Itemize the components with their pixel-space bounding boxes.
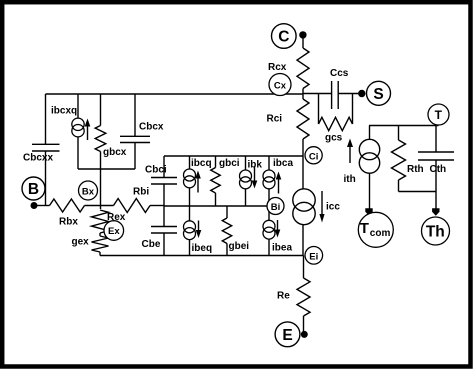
junction dot at Tcom: [365, 208, 372, 216]
wire ibca branch: [268, 156, 270, 206]
resistor Rci: [297, 99, 309, 139]
resistor Rbx: [50, 199, 85, 212]
wire thermal top rail: [369, 125, 439, 127]
svg-text:Rth: Rth: [407, 164, 424, 175]
terminal E: [275, 322, 300, 347]
svg-text:B: B: [28, 181, 39, 198]
current source ith: [347, 139, 380, 174]
wire left drop x=45.5 upper: [45, 94, 47, 144]
current source icc: [293, 189, 325, 225]
svg-text:gcs: gcs: [325, 133, 343, 144]
wire top rail to Ccs: [303, 93, 332, 95]
svg-text:C: C: [278, 29, 289, 46]
terminal C: [272, 24, 297, 49]
current source ibcq: [184, 169, 201, 193]
svg-text:E: E: [282, 327, 292, 344]
svg-text:Re: Re: [277, 291, 290, 302]
terminal B: [22, 177, 45, 200]
resistor Rth: [392, 140, 406, 180]
svg-text:gbei: gbei: [229, 241, 250, 252]
terminal T: [428, 104, 449, 125]
wire gbei lower: [226, 244, 228, 256]
wire left drop x=45.5 lower: [45, 151, 47, 206]
node Ex: [104, 221, 124, 241]
svg-text:T: T: [435, 108, 443, 122]
svg-text:icc: icc: [326, 202, 340, 213]
svg-text:ibk: ibk: [248, 160, 263, 171]
svg-text:gbcx: gbcx: [103, 147, 127, 158]
svg-text:ith: ith: [344, 174, 356, 185]
wire Ei to Re: [303, 256, 305, 279]
svg-text:com: com: [370, 228, 391, 239]
resistor gcs: [319, 117, 353, 130]
wire inner mid rail y=206: [164, 205, 267, 207]
svg-text:gex: gex: [72, 237, 90, 248]
svg-text:Ei: Ei: [309, 251, 318, 262]
capacitor Cth: [418, 152, 454, 160]
svg-text:Rbx: Rbx: [59, 217, 78, 228]
resistor Re: [297, 278, 310, 316]
wire x=100.5 down to B row: [100, 169, 102, 209]
node Th: [422, 217, 450, 245]
wire Rth upper: [398, 126, 400, 141]
resistor Rbi: [114, 199, 151, 213]
junction dot at C: [299, 31, 306, 38]
svg-text:ibcq: ibcq: [191, 158, 212, 169]
wire Rbi to inner box: [150, 205, 164, 207]
svg-text:gbci: gbci: [219, 158, 240, 169]
resistor gbci: [211, 168, 220, 194]
wire block bottom rail y=169: [78, 168, 135, 170]
svg-text:ibcxq: ibcxq: [51, 106, 77, 117]
wire inner left column middle: [163, 184, 165, 227]
svg-text:Cbe: Cbe: [142, 239, 161, 250]
current source ibeq: [184, 221, 202, 240]
wire Rth lower: [398, 180, 400, 192]
wire gbei upper: [226, 206, 228, 218]
wire Cbcx lower: [134, 143, 136, 170]
resistor Rex: [92, 210, 109, 233]
wire Cbcx upper: [134, 94, 136, 136]
wire Cth upper: [435, 126, 437, 153]
wire Rci to Ci rail: [302, 139, 304, 156]
svg-text:Th: Th: [426, 224, 445, 241]
current source ibk: [240, 166, 258, 189]
junction dot at Th: [432, 208, 439, 216]
wire ibeq branch: [189, 206, 191, 256]
svg-text:Cx: Cx: [274, 81, 287, 92]
capacitor Cbcxx: [32, 144, 60, 151]
wire gbci lower: [215, 193, 217, 206]
junction dot at B: [31, 202, 38, 209]
wire collector drop C to Rcx: [302, 36, 304, 49]
wire collector vertical through icc: [302, 156, 304, 256]
svg-text:Bx: Bx: [82, 187, 95, 198]
svg-text:ibca: ibca: [273, 158, 293, 169]
wire gbcx upper: [100, 94, 102, 126]
resistor Rcx: [297, 48, 309, 89]
terminal S: [367, 81, 391, 105]
wire Rex to gex: [99, 233, 101, 236]
svg-text:Cbcx: Cbcx: [139, 122, 164, 133]
wire inner left column upper: [163, 156, 165, 178]
wire ibcq branch: [189, 156, 191, 206]
capacitor Cbcx: [120, 136, 150, 142]
node Bi: [267, 198, 284, 215]
junction dot at E: [301, 331, 308, 338]
wire gcs right vertical: [352, 94, 354, 125]
wire Rcx to rail: [302, 89, 304, 100]
svg-text:Bi: Bi: [271, 202, 281, 213]
wire gex to bottom rail: [99, 252, 101, 256]
svg-text:ibea: ibea: [272, 243, 292, 254]
node Ei: [305, 247, 323, 265]
wire inner top rail y=156: [164, 155, 303, 157]
resistor gbcx: [95, 126, 106, 152]
svg-text:T: T: [360, 220, 369, 237]
wire gcs left vertical: [318, 94, 320, 125]
wire gbcx lower: [100, 152, 102, 170]
capacitor Cbci: [151, 178, 177, 185]
svg-text:S: S: [373, 86, 383, 103]
wire B dot to Rbx: [34, 205, 50, 207]
resistor gbei: [222, 218, 231, 244]
wire ith lower to Tcom: [369, 173, 371, 209]
wire bottom rail y=255.5: [100, 255, 303, 257]
current source ibea: [263, 220, 280, 239]
current source ibcxq: [77, 137, 79, 169]
junction dot at S: [358, 90, 365, 97]
node Ci: [305, 147, 322, 164]
wire gbci upper: [215, 156, 217, 168]
node Cx: [269, 74, 291, 96]
svg-text:Cbci: Cbci: [145, 165, 167, 176]
capacitor Cbe: [151, 227, 177, 234]
svg-text:Cbcxx: Cbcxx: [23, 153, 53, 164]
svg-text:Rex: Rex: [107, 212, 126, 223]
wire Ccs to S dot: [338, 93, 361, 95]
wire thermal bottom rail: [399, 191, 437, 193]
svg-text:Ci: Ci: [309, 151, 319, 162]
wire top rail B-side y=94: [46, 93, 304, 95]
svg-text:Rbi: Rbi: [133, 187, 149, 198]
resistor gex: [92, 236, 109, 252]
svg-text:Ccs: Ccs: [330, 68, 349, 79]
node Tcom: [358, 212, 393, 247]
svg-text:Rcx: Rcx: [268, 62, 287, 73]
svg-text:Ex: Ex: [108, 226, 120, 237]
node Bx: [79, 181, 98, 200]
svg-text:Rci: Rci: [267, 114, 283, 125]
wire ibk branch: [245, 156, 247, 206]
capacitor Ccs: [332, 81, 339, 109]
current source ibca: [263, 170, 281, 194]
wire ith upper: [369, 126, 371, 141]
svg-text:ibeq: ibeq: [192, 243, 213, 254]
wire Re to E dot: [303, 316, 305, 332]
current source ibcxq: [72, 118, 91, 140]
wire Cth lower to Th: [435, 160, 437, 209]
wire inner left column lower: [163, 233, 165, 256]
wire Rbx to node: [85, 205, 114, 207]
wire ibea branch: [268, 206, 270, 256]
svg-text:Cth: Cth: [430, 164, 447, 175]
wire ibcxq branch upper: [77, 94, 79, 119]
